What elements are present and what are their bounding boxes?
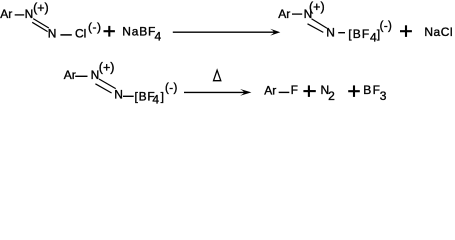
bond Ar-F <box>279 91 290 93</box>
svg-text:[BF: [BF <box>348 27 370 41</box>
bond Ar-N <box>15 14 25 16</box>
heat symbol delta <box>214 70 221 81</box>
svg-text:(-): (-) <box>380 21 393 33</box>
double bond N=N lower line <box>95 84 111 93</box>
svg-text:2: 2 <box>328 89 335 103</box>
bond Ar-N <box>292 13 302 15</box>
svg-text:NaCl: NaCl <box>424 25 453 39</box>
bond N-Cl <box>60 34 71 36</box>
svg-text:(-): (-) <box>88 20 102 34</box>
bond N-BF4 <box>123 95 134 97</box>
svg-text:N: N <box>48 27 57 41</box>
svg-text:(+): (+) <box>309 0 325 14</box>
plus sign <box>303 85 315 97</box>
plus sign <box>104 26 115 37</box>
svg-text:Ar: Ar <box>64 68 76 82</box>
reaction arrow head <box>270 29 280 36</box>
svg-text:Ar: Ar <box>0 7 12 21</box>
svg-text:(+): (+) <box>33 1 49 15</box>
svg-text:NaBF: NaBF <box>122 24 156 38</box>
bond Ar-N <box>75 75 87 77</box>
svg-text:N: N <box>326 26 335 40</box>
svg-text:3: 3 <box>380 89 387 103</box>
svg-text:(+): (+) <box>99 60 115 74</box>
double bond N=N upper line <box>312 19 328 29</box>
reaction arrow head <box>240 89 251 96</box>
reaction arrow shaft <box>184 91 244 93</box>
double bond N=N upper line <box>33 19 49 28</box>
svg-text:]: ] <box>161 89 164 103</box>
double bond N=N lower line <box>308 24 324 33</box>
svg-text:4: 4 <box>155 30 162 44</box>
svg-text:Ar: Ar <box>264 84 276 98</box>
bond N-BF4 <box>338 32 345 34</box>
plus sign <box>348 85 360 97</box>
svg-text:N: N <box>114 88 123 102</box>
svg-text:Cl: Cl <box>75 27 86 41</box>
svg-text:4: 4 <box>152 93 159 107</box>
svg-text:N: N <box>25 7 34 21</box>
double bond N=N lower line <box>32 22 47 31</box>
svg-text:Ar: Ar <box>278 7 290 21</box>
svg-text:(-): (-) <box>165 82 178 94</box>
svg-text:B: B <box>363 83 371 97</box>
plus sign <box>400 25 412 37</box>
double bond N=N upper line <box>99 79 116 89</box>
reaction arrow shaft <box>173 31 274 33</box>
svg-text:F: F <box>291 83 298 97</box>
